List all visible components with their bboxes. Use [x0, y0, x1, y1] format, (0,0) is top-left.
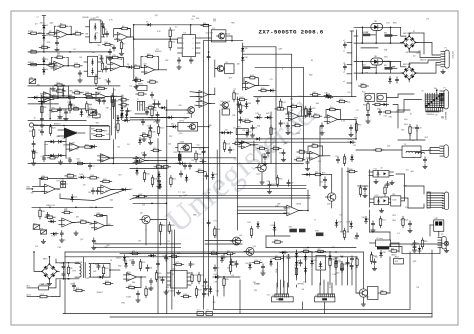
optocoupler OC2: [374, 197, 389, 205]
wire U8 out: [106, 96, 113, 98]
diode D37: [90, 111, 97, 114]
svg-text:R50: R50: [330, 107, 333, 109]
op-amp U14: [133, 157, 148, 165]
svg-text:R52: R52: [129, 189, 132, 191]
svg-text:C46: C46: [64, 209, 67, 211]
svg-text:1N4007: 1N4007: [287, 116, 294, 118]
wire nested L2: [243, 54, 292, 207]
diode box U29: [58, 86, 69, 98]
cluster mid: [305, 109, 307, 116]
capacitor C48: [40, 118, 43, 120]
wire bridge2 to CN1: [416, 63, 441, 74]
svg-text:D18: D18: [435, 114, 438, 116]
tap 3: [347, 64, 352, 66]
svg-text:R112: R112: [232, 265, 236, 267]
svg-text:D30: D30: [297, 133, 300, 135]
resistor R123: [361, 85, 366, 87]
small parts y150: [153, 149, 159, 151]
svg-text:R90: R90: [44, 107, 47, 109]
svg-text:102: 102: [73, 49, 76, 51]
resistor R79: [198, 275, 200, 282]
wire bridge2 top: [409, 60, 440, 67]
svg-text:D59: D59: [210, 33, 213, 35]
resistor R3 feedback: [60, 25, 66, 27]
diode matrix diagonal dots: [425, 105, 427, 107]
svg-text:Q66: Q66: [184, 195, 188, 197]
svg-text:L1: L1: [413, 157, 415, 159]
resistor R17: [150, 81, 156, 83]
wire bus y51: [28, 51, 110, 53]
diode D46: [241, 55, 244, 62]
diode matrix grid verticals: [424, 93, 426, 107]
svg-text:D48: D48: [325, 92, 328, 94]
diode D68: [311, 258, 314, 265]
wire I links2: [383, 60, 390, 62]
resistor R77: [176, 263, 182, 265]
svg-text:1N5408x8: 1N5408x8: [427, 114, 434, 116]
capacitor C21: [256, 100, 259, 102]
capacitor C35: [62, 265, 65, 267]
capacitor C4b: [100, 57, 103, 59]
svg-text:472: 472: [83, 184, 86, 186]
wire rails y24.8: [134, 24, 209, 26]
node arrow: [130, 197, 139, 200]
svg-text:R105: R105: [282, 102, 286, 104]
svg-text:C51: C51: [405, 207, 409, 209]
diode D34: [380, 250, 383, 257]
capacitor C3: [112, 47, 115, 49]
svg-text:R73: R73: [322, 173, 325, 175]
tap 5: [347, 82, 352, 84]
svg-text:Q60: Q60: [50, 22, 54, 24]
wire bridge1 to CN1: [416, 42, 441, 55]
diode D27: [335, 220, 338, 227]
IC U4 pins right: [196, 37, 201, 39]
tap 2: [347, 52, 352, 54]
svg-text:OUTPUT: OUTPUT: [451, 51, 453, 60]
svg-text:472: 472: [346, 232, 349, 234]
svg-text:C1: C1: [37, 17, 39, 19]
svg-text:C9: C9: [129, 111, 131, 113]
wire K extra: [369, 210, 371, 232]
optocoupler OC1: [373, 171, 389, 178]
op-amp U16: [98, 185, 114, 194]
diode D24: [326, 96, 333, 99]
wire bottom nest 2: [65, 256, 356, 258]
cap C14 on U15: [61, 182, 64, 184]
svg-text:DS1: DS1: [435, 218, 439, 220]
svg-text:R60: R60: [350, 169, 353, 171]
svg-text:a4: a4: [343, 72, 345, 74]
svg-text:D77: D77: [57, 180, 60, 182]
svg-text:R58: R58: [279, 179, 282, 181]
svg-text:D14: D14: [80, 174, 83, 176]
diode D73: [418, 246, 421, 253]
diode D15: [71, 194, 74, 201]
svg-text:R85: R85: [275, 256, 278, 258]
connector CN4 pin rows: [427, 192, 443, 194]
svg-text:R38: R38: [258, 114, 261, 116]
svg-text:C6: C6: [105, 80, 107, 82]
svg-text:TL431: TL431: [392, 200, 397, 202]
svg-text:Q15: Q15: [386, 185, 389, 187]
capacitor C85: [413, 245, 416, 247]
svg-text:680: 680: [132, 282, 135, 284]
capacitor C44: [373, 260, 376, 262]
resistor R109: [250, 77, 255, 79]
ground OC2: [381, 209, 383, 211]
diode D52: [97, 276, 104, 279]
svg-text:470: 470: [178, 105, 181, 107]
wire bottom long y317: [110, 316, 432, 318]
svg-text:R73: R73: [132, 251, 135, 253]
wire U5b fb: [107, 58, 113, 64]
connector circle CON1: [29, 123, 33, 127]
svg-text:R65: R65: [384, 65, 387, 67]
capacitor C51: [88, 164, 91, 166]
resistor R27: [233, 93, 235, 100]
svg-text:470: 470: [318, 161, 321, 163]
capacitor C2: [101, 23, 104, 25]
wire U1B out: [64, 65, 74, 67]
svg-text:D71: D71: [214, 220, 217, 222]
svg-text:C64: C64: [95, 264, 98, 266]
wire M extra: [120, 253, 130, 255]
svg-text:C83: C83: [94, 222, 97, 224]
capacitor C77: [213, 266, 216, 268]
svg-text:1N4148: 1N4148: [55, 66, 61, 68]
svg-text:R16: R16: [98, 78, 101, 80]
wire U1A out: [67, 33, 75, 35]
resistor R52: [355, 124, 357, 131]
svg-text:R49: R49: [314, 114, 317, 116]
svg-text:D56: D56: [246, 263, 249, 265]
box SW1: [93, 114, 101, 118]
relay RL3: [365, 94, 375, 102]
svg-text:Q86: Q86: [55, 156, 58, 158]
svg-text:R104: R104: [235, 141, 239, 143]
svg-text:R135: R135: [260, 146, 264, 148]
resistor R24: [85, 146, 92, 148]
capacitor C52: [156, 114, 159, 116]
transistor Q5: [188, 107, 195, 114]
diode D39: [125, 112, 128, 119]
svg-text:R41: R41: [154, 179, 157, 181]
svg-text:331: 331: [232, 115, 235, 117]
svg-text:AC-L: AC-L: [27, 285, 31, 288]
svg-text:105: 105: [161, 224, 164, 226]
svg-text:U25: U25: [172, 268, 175, 270]
resistor R136: [270, 128, 272, 135]
resistor R85: [275, 257, 281, 259]
svg-text:C38: C38: [149, 268, 152, 270]
parts under RL3: [367, 104, 369, 111]
capacitor cluster C11: [153, 103, 156, 105]
diode D9 pair: [48, 140, 55, 143]
diode D35: [270, 259, 273, 266]
resistor R49: [314, 115, 320, 117]
resistor R74: [139, 262, 141, 269]
svg-text:R136: R136: [273, 129, 277, 131]
wire L feed up: [48, 279, 56, 288]
svg-text:R110: R110: [261, 88, 265, 90]
wire L up links: [83, 257, 85, 263]
svg-text:R42: R42: [198, 169, 201, 171]
svg-text:R37: R37: [99, 131, 102, 133]
resistor R75: [129, 286, 135, 288]
resistor R44: [159, 225, 161, 232]
svg-text:560: 560: [108, 224, 111, 226]
svg-text:D25: D25: [349, 139, 352, 141]
diode D72: [80, 109, 83, 116]
svg-text:CN6: CN6: [272, 295, 275, 297]
svg-text:C77: C77: [217, 268, 220, 270]
capacitor C62: [136, 292, 139, 294]
resistor R71: [67, 267, 69, 274]
capacitor C69: [395, 79, 398, 81]
wire DS1: [438, 231, 440, 236]
resistor R12: [169, 30, 171, 37]
wire vertical x219.8: [219, 110, 221, 190]
svg-text:D30: D30: [126, 257, 129, 259]
svg-text:D49: D49: [202, 103, 205, 105]
diode D49: [221, 255, 224, 262]
wire center risers: [253, 141, 255, 160]
svg-text:D34: D34: [196, 18, 199, 20]
resistor R101: [143, 134, 148, 136]
resistor R87: [53, 96, 58, 98]
svg-text:C83: C83: [297, 261, 300, 263]
capacitor C45: [350, 264, 353, 266]
svg-text:R113: R113: [212, 251, 216, 253]
resistor R115: [145, 289, 147, 296]
svg-text:R55: R55: [312, 144, 315, 146]
svg-text:C79: C79: [254, 128, 257, 130]
svg-text:R13: R13: [57, 55, 60, 57]
svg-text:D17: D17: [49, 218, 52, 220]
transistor box Q7: [178, 122, 198, 131]
svg-text:102: 102: [413, 56, 416, 58]
op-amp U1A: [54, 30, 70, 39]
svg-text:R61: R61: [122, 303, 125, 305]
svg-text:C25: C25: [335, 156, 338, 158]
svg-text:R45: R45: [171, 225, 174, 227]
diode D54: [335, 258, 338, 265]
resistor R14: [203, 24, 209, 26]
svg-text:Q12: Q12: [257, 174, 260, 176]
transistor Q10: [328, 193, 336, 201]
wire U6 fb: [141, 57, 143, 68]
svg-text:C85: C85: [411, 245, 414, 247]
resistor R16b: [95, 77, 97, 84]
wire bottom long y313: [63, 313, 432, 315]
resistor R80: [223, 279, 225, 286]
junction dots bottom: [311, 251, 313, 253]
capacitor C1: [55, 42, 58, 44]
capacitor C37: [131, 261, 134, 263]
ground CN1: [442, 70, 444, 72]
wire input IN2: [43, 64, 45, 66]
svg-text:Q14: Q14: [253, 246, 256, 248]
svg-text:R40: R40: [146, 174, 149, 176]
svg-text:103: 103: [192, 16, 195, 18]
svg-text:D29: D29: [95, 118, 98, 120]
svg-text:R21: R21: [51, 222, 54, 224]
resistor R68: [384, 187, 386, 194]
capacitor C58: [237, 103, 240, 105]
resistor R141: [74, 108, 79, 110]
diode D28: [350, 221, 353, 228]
diode D8: [121, 111, 124, 118]
capacitor C9: [126, 110, 129, 112]
wire U3 out: [128, 36, 134, 38]
capacitor C34: [413, 242, 416, 244]
diode D31: [213, 276, 220, 279]
svg-text:470u: 470u: [404, 119, 408, 121]
resistor R11: [31, 63, 37, 65]
small parts right of U4b: [101, 63, 103, 69]
capacitor C66: [287, 256, 290, 258]
svg-text:D31: D31: [214, 274, 217, 276]
svg-text:R120: R120: [304, 249, 308, 251]
svg-text:RP2: RP2: [33, 223, 37, 225]
svg-text:R132: R132: [184, 294, 188, 296]
resistor R55: [312, 145, 318, 147]
svg-text:100: 100: [125, 111, 128, 113]
diode D2: [42, 33, 45, 40]
resistor R95: [32, 152, 34, 159]
resistor R92: [86, 104, 88, 111]
svg-text:R131: R131: [172, 179, 176, 181]
relay RL4: [377, 94, 387, 102]
svg-text:R38: R38: [97, 213, 100, 215]
op-amp U10: [67, 143, 83, 151]
svg-text:C11: C11: [153, 100, 156, 102]
svg-text:C35: C35: [254, 290, 257, 292]
wire U4b pins: [84, 61, 88, 63]
svg-text:C61: C61: [270, 79, 273, 81]
wire K long feed: [405, 186, 425, 194]
diode D53: [295, 260, 298, 267]
svg-text:R46: R46: [439, 110, 442, 112]
svg-text:470: 470: [353, 145, 356, 147]
svg-text:C29: C29: [290, 183, 293, 185]
capacitor C70: [415, 127, 418, 129]
svg-text:R15: R15: [113, 55, 116, 57]
svg-text:K1: K1: [213, 28, 215, 30]
svg-text:Q68: Q68: [128, 274, 131, 276]
svg-text:D68: D68: [314, 260, 317, 262]
wire bus y142 center: [236, 141, 350, 143]
capacitor C55: [149, 127, 152, 129]
svg-text:IRFP460: IRFP460: [298, 284, 304, 286]
wire nested L1: [243, 47, 276, 180]
capacitor C43: [230, 260, 233, 262]
wire bottom long y309: [213, 308, 410, 310]
svg-text:Q37: Q37: [202, 285, 205, 287]
diode D36: [32, 96, 39, 99]
power rail VCC top: [43, 16, 45, 18]
svg-text:D32: D32: [298, 252, 301, 254]
resistor R14b: [74, 65, 80, 67]
wire F lower: [145, 230, 147, 245]
resistor R105: [279, 101, 281, 108]
svg-text:P5: P5: [441, 234, 443, 236]
svg-text:C53: C53: [411, 140, 414, 142]
svg-text:D7: D7: [124, 107, 126, 109]
svg-text:AD8572: AD8572: [54, 122, 61, 125]
ground G1: [42, 239, 44, 241]
svg-text:0.1: 0.1: [234, 89, 236, 91]
transformer T2 core: [83, 263, 85, 278]
svg-text:RT1: RT1: [41, 294, 44, 296]
svg-text:C10: C10: [216, 291, 219, 293]
capacitor C49: [42, 157, 45, 159]
svg-text:C84: C84: [63, 110, 66, 112]
resistor R108: [297, 159, 303, 161]
resistor R90: [41, 106, 43, 113]
svg-text:1N4007: 1N4007: [97, 292, 103, 294]
svg-text:104: 104: [57, 189, 60, 191]
wire vertical x217: [216, 150, 218, 296]
svg-text:R93: R93: [121, 97, 124, 99]
svg-text:man: man: [129, 86, 132, 88]
resistor R103: [240, 98, 245, 100]
svg-text:R48: R48: [291, 104, 294, 106]
diode D17: [48, 220, 55, 223]
svg-text:F3: F3: [207, 310, 209, 312]
resistor R134: [245, 120, 250, 122]
capacitor C26: [263, 155, 266, 157]
svg-text:R103: R103: [240, 97, 244, 99]
op-amp U3: [114, 33, 130, 42]
svg-text:R7: R7: [381, 197, 383, 199]
svg-text:R7: R7: [123, 44, 125, 46]
op-amp U24: [124, 273, 140, 281]
capacitor C24: [349, 127, 352, 129]
svg-text:VR3: VR3: [315, 230, 319, 232]
resistor R117: [102, 267, 104, 274]
capacitor C60: [235, 262, 238, 264]
svg-text:C78: C78: [67, 102, 70, 104]
tap 4: [347, 73, 352, 75]
diode pair box U2: [90, 20, 101, 43]
svg-text:D2: D2: [142, 132, 144, 134]
wire K1 links: [200, 37, 211, 39]
svg-text:C96: C96: [104, 130, 107, 132]
diode D42: [139, 137, 142, 144]
svg-text:K2 relay: K2 relay: [377, 237, 383, 240]
transformer T2 primary: [79, 264, 81, 278]
op-amp U1B: [51, 61, 67, 70]
svg-text:C50: C50: [67, 158, 70, 160]
svg-text:R69: R69: [424, 241, 427, 243]
wire B2 top feed: [391, 62, 406, 67]
svg-text:D4: D4: [46, 69, 48, 71]
svg-text:R82: R82: [318, 249, 321, 251]
resistor R113: [212, 252, 217, 254]
resistor R138: [149, 131, 151, 138]
ground G6: [165, 290, 167, 292]
capacitor C79: [251, 127, 254, 129]
svg-text:C70: C70: [419, 128, 422, 130]
wire U27 out: [251, 144, 258, 146]
capacitor C23: [320, 125, 323, 127]
svg-text:C81: C81: [144, 110, 147, 112]
svg-text:104: 104: [199, 148, 202, 150]
svg-text:Q10: Q10: [327, 204, 331, 206]
diode D40: [122, 119, 129, 122]
